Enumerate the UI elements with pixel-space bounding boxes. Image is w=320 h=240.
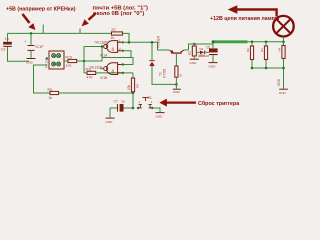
diode D2 (196, 47, 209, 58)
wire: base node to ground (175, 84, 177, 88)
svg-text:IC1P: IC1P (36, 45, 45, 49)
annotation: arrow from lamp (236, 10, 277, 17)
node: relay top pin (193, 43, 195, 45)
node: +5V supply stub (42, 25, 44, 34)
svg-text:R7: R7 (112, 28, 117, 32)
svg-text:1u: 1u (5, 37, 9, 41)
lamp LA1 (273, 16, 294, 42)
svg-text:&: & (112, 68, 115, 73)
optocoupler U1 (box with two lamp pairs) (44, 51, 64, 69)
svg-text:GND: GND (190, 61, 198, 65)
ground GND6 (under C5) (209, 62, 218, 69)
svg-text:1k: 1k (179, 73, 183, 77)
ground GND4 (under R12) (173, 89, 181, 95)
svg-text:+5В (например от КРЕНки): +5В (например от КРЕНки) (6, 6, 76, 12)
capacitor C3 (1, 33, 29, 61)
ground GND2 (under C7) (106, 118, 115, 124)
annotation: arrow to reset button (166, 101, 196, 103)
svg-text:470: 470 (87, 76, 93, 80)
svg-text:IC1B: IC1B (100, 76, 108, 80)
svg-text:POWER: POWER (156, 35, 160, 48)
annotation: arrow to +5V rail (23, 14, 30, 23)
node: logic-level stub (79, 29, 81, 34)
svg-text:R9: R9 (48, 88, 53, 92)
node: base junction (175, 83, 178, 86)
svg-text:GND: GND (106, 120, 114, 124)
annotation: arrow to logic node (89, 14, 96, 20)
node: gate B input pins (122, 63, 124, 65)
svg-text:GND: GND (279, 91, 287, 95)
svg-text:&: & (112, 46, 115, 51)
svg-text:GND: GND (209, 65, 217, 69)
wire: S1 to ground (152, 108, 160, 112)
svg-text:1u: 1u (121, 99, 125, 103)
svg-text:GND: GND (156, 115, 164, 119)
wire: +5V top rail (8, 32, 112, 34)
resistor R12 (base resistor) (175, 66, 183, 84)
svg-text:74L132N: 74L132N (94, 40, 108, 44)
svg-text:R4: R4 (278, 47, 282, 51)
svg-text:1k: 1k (111, 36, 115, 40)
resistor R9 (48, 88, 134, 100)
wire: C7 to ground (109, 108, 111, 118)
NAND gate IC1B (mirrored, output left) (89, 63, 121, 80)
svg-text:100u: 100u (198, 54, 205, 58)
svg-text:GND: GND (277, 78, 281, 86)
wire: down to button net (132, 93, 134, 108)
node: junction IC1P on rail (30, 32, 33, 35)
wire: B output stub (100, 68, 104, 70)
wire: to ground (283, 68, 285, 89)
svg-text:K1: K1 (188, 51, 192, 55)
svg-text:R2: R2 (246, 48, 250, 52)
svg-text:PC123: PC123 (44, 58, 48, 68)
svg-text:R3: R3 (260, 48, 264, 52)
svg-text:IC1A: IC1A (100, 54, 108, 58)
ground GND7 (load) (279, 89, 288, 95)
resistor R11 (84, 67, 133, 79)
resistor R10 (64, 55, 102, 68)
svg-text:D2: D2 (200, 47, 204, 51)
svg-text:Сброс триггера: Сброс триггера (198, 100, 240, 107)
svg-text:R8: R8 (135, 84, 139, 88)
diode D1 (149, 41, 176, 84)
svg-text:470: 470 (66, 64, 72, 68)
resistor R7 (111, 28, 130, 43)
power part IC1P (24, 33, 44, 58)
svg-text:KT361: KT361 (163, 68, 167, 78)
wire: lamp rail (248, 41, 285, 43)
svg-text:C3: C3 (1, 48, 6, 52)
svg-text:GND: GND (173, 90, 181, 94)
wire: U1 lower-left pin to reset line (34, 65, 51, 93)
wire: thick +12V bus (213, 40, 248, 43)
transistor T1 (159, 50, 189, 78)
ground GND3 (under S1) (156, 112, 165, 118)
node: gate A input pins (122, 41, 124, 43)
wire: feedback column (83, 47, 85, 74)
capacitor C7 (110, 99, 133, 111)
resistor R8 (127, 78, 139, 92)
node: unconnected pin of U1 (46, 57, 48, 59)
node: junction R7 / gate A in1 (128, 41, 131, 44)
svg-text:1k: 1k (49, 96, 53, 100)
wire: to transistor (129, 42, 169, 50)
svg-text:R10: R10 (66, 55, 72, 59)
NAND gate IC1A (mirrored, output left) (94, 38, 121, 57)
resistor R3 (load) (260, 42, 268, 68)
resistor R2 (load) (246, 42, 254, 68)
svg-text:GND: GND (26, 61, 34, 65)
ground GND1 (under IC1P) (26, 58, 36, 65)
relay K1 (188, 44, 197, 59)
switch S1 (reset button) (137, 96, 154, 109)
wire: load bottom rail (252, 67, 284, 69)
wire: emitter to +12V node (189, 44, 214, 50)
ground GND5 (under K1) (190, 59, 199, 65)
node: junction at R10/R11/feedback (83, 60, 86, 63)
wire: R11/R8 link (132, 73, 134, 78)
svg-text:10k: 10k (127, 84, 131, 90)
svg-text:C7: C7 (114, 99, 119, 103)
wire: gate A output (84, 46, 104, 48)
svg-text:+12В цепи питания лампы: +12В цепи питания лампы (210, 16, 280, 22)
wire: A input1 to R7 (123, 41, 129, 43)
svg-text:C5: C5 (206, 46, 210, 50)
svg-text:около 0В (лог "0"): около 0В (лог "0") (93, 11, 144, 17)
wire: A input2 hook (123, 51, 131, 58)
node: junction reset net (132, 92, 135, 95)
capacitor C5 (198, 42, 218, 62)
resistor R4 (load) (278, 42, 285, 68)
wire: A out to B input (102, 58, 133, 65)
